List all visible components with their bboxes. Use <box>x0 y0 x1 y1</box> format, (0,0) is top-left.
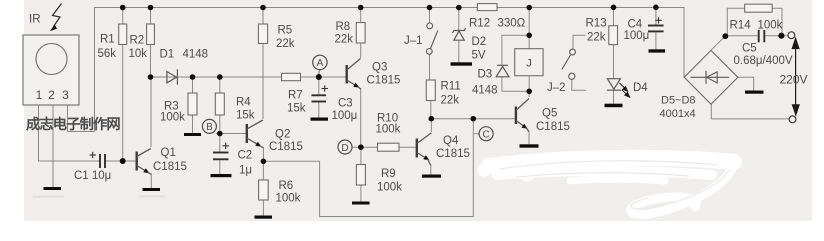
svg-text:C3: C3 <box>338 98 353 110</box>
svg-text:100k: 100k <box>276 193 301 205</box>
svg-text:R6: R6 <box>279 180 294 192</box>
wire J-2 upper stub <box>573 35 586 49</box>
svg-text:22k: 22k <box>276 38 295 50</box>
transistor Q2 <box>247 120 264 148</box>
resistor R9 <box>356 165 365 186</box>
svg-text:0.68μ/400V: 0.68μ/400V <box>734 55 793 67</box>
bridge inner diode <box>691 71 730 84</box>
junction dot D1-R2 <box>148 74 154 80</box>
ground R9 <box>352 202 370 205</box>
svg-text:100k: 100k <box>758 20 783 32</box>
svg-text:D2: D2 <box>472 36 487 48</box>
junction dot rail J-1 <box>427 5 433 11</box>
ground bridge minus <box>745 91 764 94</box>
svg-text:IR: IR <box>29 14 41 26</box>
wire J-1 top <box>429 8 431 24</box>
svg-text:C4: C4 <box>628 19 643 31</box>
resistor R11 <box>426 80 435 101</box>
zener diode D2 <box>453 28 466 40</box>
ground D2 <box>451 62 473 65</box>
wire bottom C loop <box>320 119 474 217</box>
svg-text:3: 3 <box>62 88 69 102</box>
svg-text:R1: R1 <box>100 34 115 46</box>
svg-text:C1815: C1815 <box>269 141 303 153</box>
wire R2 top <box>150 8 152 25</box>
junction dot C5 right <box>778 33 784 39</box>
wire R13 top <box>613 7 615 25</box>
svg-text:B: B <box>206 122 213 133</box>
junction dot C5 left <box>722 33 728 39</box>
junction dot R3 top <box>190 74 196 80</box>
node A circle <box>313 55 327 74</box>
svg-text:A: A <box>317 58 324 69</box>
svg-text:D4: D4 <box>633 82 648 94</box>
wire R5 bottom to Q2 collector <box>262 44 264 120</box>
svg-text:10k: 10k <box>129 48 148 60</box>
svg-text:成志电子制作网: 成志电子制作网 <box>26 115 120 133</box>
wire Q5 emitter to ground <box>528 131 530 144</box>
svg-text:R12: R12 <box>469 18 490 30</box>
node D circle <box>338 140 352 154</box>
wire R8 to Q3 collector <box>360 43 362 58</box>
svg-text:220V: 220V <box>780 73 808 87</box>
capacitor C1 plus <box>90 152 97 158</box>
transistor Q5 <box>516 99 529 132</box>
svg-text:15k: 15k <box>287 103 306 115</box>
junction dot rail R13 <box>611 5 617 11</box>
svg-text:J–2: J–2 <box>547 82 566 94</box>
junction dot relay bottom <box>526 89 532 95</box>
wire D node to R10 <box>352 146 378 148</box>
smudge ghost curves <box>500 161 729 209</box>
LED D4 emission arrows <box>620 83 630 97</box>
wire Q2 emitter down <box>262 148 264 162</box>
220V AC arrow <box>792 39 799 115</box>
ground Q5 emitter <box>520 144 539 147</box>
wire bridge right to ground <box>738 77 754 90</box>
wire top supply rail left segment <box>95 8 478 132</box>
svg-text:C2: C2 <box>238 150 253 162</box>
wire C4 stem <box>655 7 657 25</box>
wire C node tick <box>473 133 479 135</box>
svg-text:C1815: C1815 <box>153 161 187 173</box>
wire D2 to ground <box>458 40 460 63</box>
junction dot rail R1 <box>120 5 126 11</box>
svg-text:2: 2 <box>48 88 55 102</box>
diode D1 <box>167 69 178 85</box>
wire R9 bottom to ground <box>360 185 362 202</box>
transistor Q4 <box>417 133 431 166</box>
wire C2 stem <box>219 134 221 153</box>
svg-text:4001x4: 4001x4 <box>660 108 696 120</box>
wire C5 right <box>766 35 789 37</box>
svg-text:56k: 56k <box>98 48 117 60</box>
svg-text:C1815: C1815 <box>436 148 470 160</box>
svg-text:1μ: 1μ <box>239 165 252 177</box>
resistor R12 <box>477 4 497 11</box>
wire R1 top <box>122 8 124 25</box>
LED D4 <box>607 79 621 91</box>
svg-text:R7: R7 <box>288 90 303 102</box>
resistor R1 <box>119 24 127 45</box>
svg-text:22k: 22k <box>335 34 354 46</box>
ground Q4 emitter <box>422 175 441 178</box>
wire R9 top <box>360 147 362 164</box>
wire Q3 emitter to D node <box>360 88 362 147</box>
svg-text:D3: D3 <box>478 69 493 81</box>
resistor R5 <box>258 24 267 44</box>
switch J-1 <box>426 23 437 54</box>
resistor R4 <box>215 93 224 115</box>
svg-text:Q4: Q4 <box>443 135 459 147</box>
svg-text:1: 1 <box>36 88 43 102</box>
junction dot B line <box>217 131 223 137</box>
svg-text:4148: 4148 <box>183 49 209 61</box>
svg-text:C5: C5 <box>742 43 757 55</box>
wire D4 to ground <box>613 91 615 104</box>
wire R3 top <box>192 77 194 93</box>
junction dot Q2 emitter <box>261 159 267 165</box>
ground R3 <box>184 133 201 136</box>
svg-text:D1: D1 <box>160 49 175 61</box>
svg-text:C1815: C1815 <box>367 75 401 87</box>
wire R4 bottom to B node <box>219 115 221 134</box>
svg-text:C1 10μ: C1 10μ <box>74 170 111 182</box>
junction dot relay top <box>526 33 532 39</box>
svg-text:D5~D8: D5~D8 <box>661 95 696 107</box>
ground Q1 emitter <box>143 188 161 191</box>
wire J-1 to R11 <box>429 55 431 81</box>
wire R7 to A node <box>301 76 347 78</box>
junction dot rail relay <box>526 5 532 11</box>
wire Q2 emitter to C loop <box>263 160 319 162</box>
ground C4 <box>649 49 666 52</box>
svg-text:Q3: Q3 <box>372 62 387 74</box>
wire Q1 emitter to ground <box>150 174 152 189</box>
ground R6 <box>255 216 273 219</box>
svg-text:J–1: J–1 <box>404 35 423 47</box>
junction dot C vertical <box>471 116 477 122</box>
ground IR pin2 <box>44 187 62 190</box>
resistor R7 <box>282 73 301 80</box>
wire R5 top <box>262 8 264 25</box>
wire C5 left <box>727 35 757 37</box>
svg-text:100k: 100k <box>376 124 401 136</box>
wire Q4 emitter to ground <box>430 165 432 175</box>
wire D3 branch top <box>502 35 529 64</box>
wire Q1 collector <box>150 77 152 147</box>
diode D3 <box>496 65 509 77</box>
resistor R2 <box>147 24 155 45</box>
junction dot rail D2 <box>456 5 462 11</box>
capacitor C4 <box>648 26 664 32</box>
wire C4 to ground <box>655 31 657 49</box>
resistor R8 <box>356 23 365 44</box>
capacitor C3 <box>312 95 327 101</box>
svg-text:C: C <box>482 130 489 141</box>
watermark ghost left <box>33 196 64 199</box>
wire relay bottom to Q5 collector <box>528 76 530 97</box>
svg-text:100k: 100k <box>377 182 402 194</box>
junction dot Q1 base <box>120 158 126 164</box>
junction dot Q4 collector <box>429 116 435 122</box>
terminal lower 220V <box>789 116 796 123</box>
ground C2 <box>211 174 232 177</box>
svg-text:R2: R2 <box>130 35 145 47</box>
capacitor C2 plus <box>223 143 230 149</box>
IR lightning arrow <box>50 4 62 32</box>
wire C3 to ground <box>318 102 320 118</box>
resistor R10 <box>378 143 400 151</box>
resistor R3 <box>188 93 197 115</box>
IR receiver module box <box>23 35 79 105</box>
node B circle <box>202 119 216 133</box>
ground D4 <box>605 104 623 108</box>
wire C2 to ground <box>219 160 221 175</box>
capacitor C1 <box>100 154 105 168</box>
junction dot R4 top <box>217 74 223 80</box>
capacitor C5 <box>759 30 765 42</box>
wire C3 stem <box>318 77 320 95</box>
svg-text:J: J <box>526 58 532 70</box>
wire R3 bottom to ground <box>192 115 194 133</box>
wire bridge top lead <box>711 36 725 50</box>
wire R10 to Q4 base <box>399 146 417 148</box>
svg-text:100μ: 100μ <box>332 110 358 122</box>
svg-text:100μ: 100μ <box>624 30 650 42</box>
svg-text:D: D <box>341 143 348 154</box>
junction dot D line <box>358 144 364 150</box>
watermark ghost right <box>139 195 165 198</box>
wire IR pin2 to ground <box>52 105 54 187</box>
svg-text:R5: R5 <box>278 25 293 37</box>
svg-text:C1815: C1815 <box>536 121 570 133</box>
transistor Q3 <box>347 59 361 90</box>
resistor R14 <box>745 4 772 12</box>
wire R1 bottom to base node <box>122 45 124 162</box>
junction dot A line <box>316 74 322 80</box>
wire top supply rail right segment <box>497 8 684 78</box>
svg-text:R14: R14 <box>730 20 752 32</box>
wire IR pin1 to C1 <box>39 105 100 161</box>
wire R11 to Q4 collector <box>430 101 432 119</box>
svg-text:Q5: Q5 <box>542 108 557 120</box>
wire B node to Q2 base <box>216 133 247 135</box>
wire bridge bottom to terminal <box>711 104 789 119</box>
wire R6 bottom to ground <box>262 200 264 216</box>
wire R14 right lead <box>772 8 782 36</box>
capacitor C2 <box>213 153 229 160</box>
wire R6 top <box>262 161 264 180</box>
svg-text:5V: 5V <box>472 50 486 62</box>
capacitor C3 plus <box>322 85 329 91</box>
wire D3 branch bottom <box>502 77 529 92</box>
svg-text:Q2: Q2 <box>275 129 290 141</box>
capacitor C4 plus <box>655 17 662 23</box>
bridge rectifier D5~D8 diamond <box>684 50 738 104</box>
relay J coil box <box>515 49 543 76</box>
junction dot rail R5 <box>260 5 266 11</box>
wire IR pin3 to rail <box>68 105 95 132</box>
resistor R6 <box>259 180 269 200</box>
svg-text:100k: 100k <box>160 112 185 124</box>
svg-text:4148: 4148 <box>472 85 498 97</box>
wire D2 stem <box>458 8 460 32</box>
junction dot rail R8 <box>358 5 364 11</box>
resistor R13 <box>609 26 618 45</box>
wire R8 top <box>360 8 362 23</box>
transistor Q1 <box>137 149 152 175</box>
svg-text:R13: R13 <box>586 18 607 30</box>
wire R13 to D4 <box>613 45 615 79</box>
svg-text:330Ω: 330Ω <box>498 18 526 30</box>
junction dot rail C4 <box>653 5 659 11</box>
wire R4 top <box>219 77 221 93</box>
switch J-2 <box>562 49 576 79</box>
wire Q4 collector vertical <box>430 119 432 132</box>
node C circle <box>479 127 493 141</box>
wire J-2 lower stub <box>572 80 586 91</box>
wire C1 to Q1 base <box>105 160 137 162</box>
svg-text:R4: R4 <box>236 97 251 109</box>
wire C net to Q5 base <box>431 118 516 120</box>
eraser smudge strokes <box>484 158 734 215</box>
junction dot rail R2 <box>148 5 154 11</box>
svg-text:R8: R8 <box>336 21 351 33</box>
ground C3 <box>311 118 329 121</box>
svg-text:15k: 15k <box>236 110 255 122</box>
wire R2 bottom <box>150 45 152 78</box>
wire D1 signal line y77 <box>151 76 282 78</box>
svg-text:22k: 22k <box>441 95 460 107</box>
svg-text:Q1: Q1 <box>161 147 176 159</box>
svg-text:R9: R9 <box>381 168 396 180</box>
svg-text:22k: 22k <box>587 32 606 44</box>
wire R14 left lead <box>727 8 744 36</box>
svg-text:R11: R11 <box>441 81 461 93</box>
terminal upper 220V <box>788 32 795 39</box>
wire relay top <box>528 8 530 49</box>
